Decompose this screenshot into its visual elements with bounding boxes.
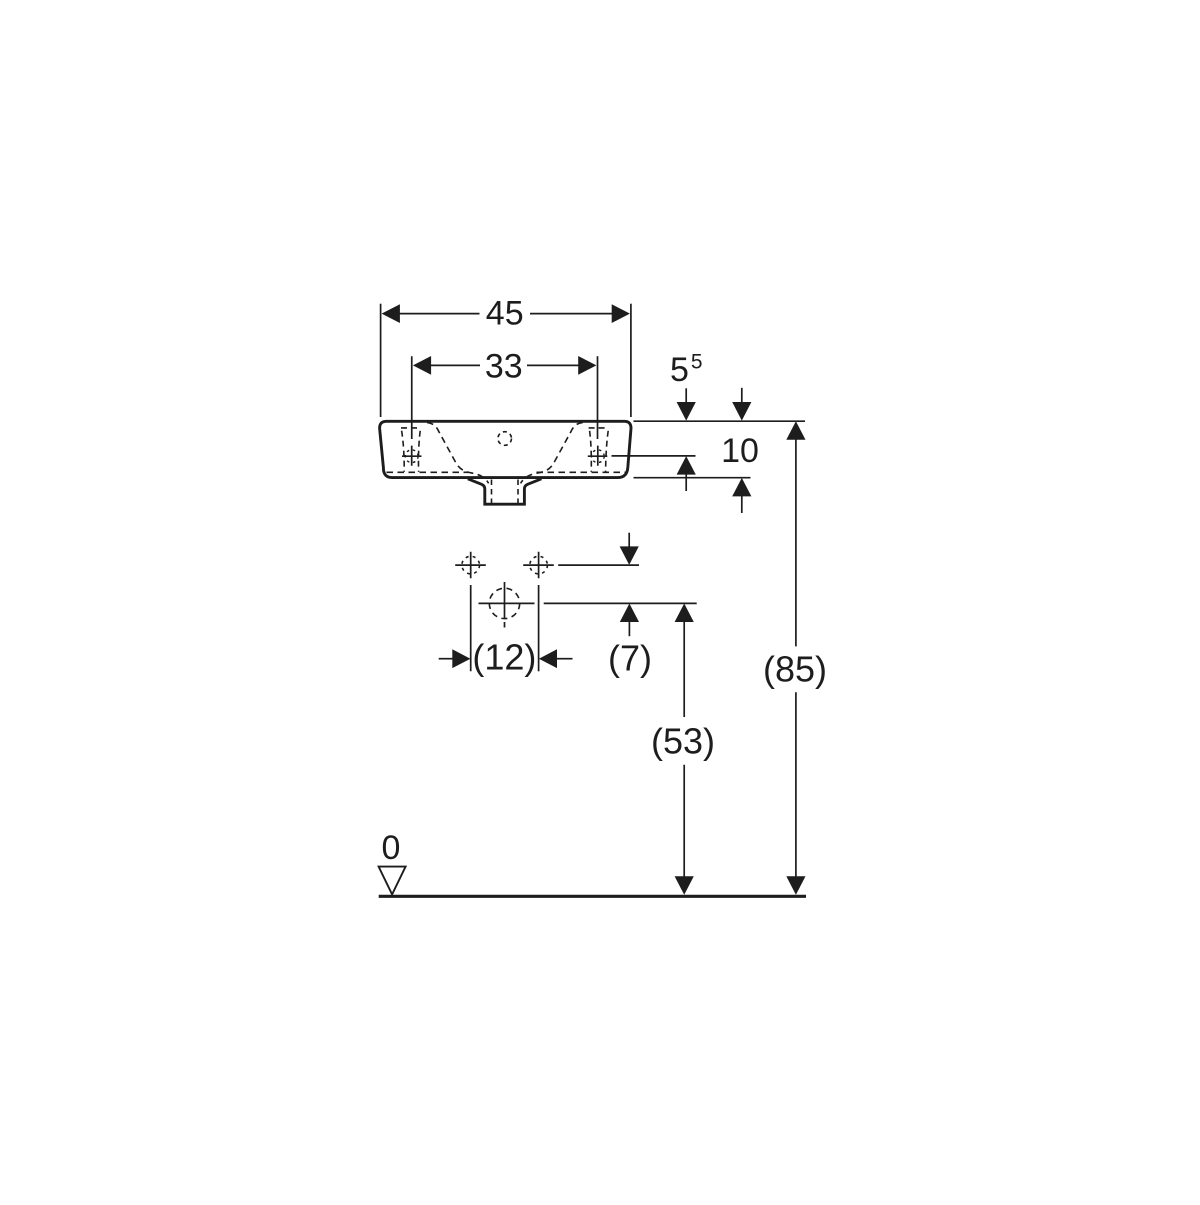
wire 5.5-dim down arrow tail	[685, 388, 687, 403]
wire 10-dim up arrow tail	[741, 496, 743, 513]
svg-text:0: 0	[382, 829, 401, 867]
node 5.5-dim down arrow	[677, 402, 696, 421]
node 45 arrow right	[612, 304, 630, 323]
node 7-dim up arrow	[620, 604, 639, 623]
svg-text:(53): (53)	[651, 721, 715, 762]
node left fixing hole dashed circle	[405, 450, 418, 463]
node 45 arrow left	[382, 304, 400, 323]
wire 12-dim right-pointing arrow tail	[439, 658, 453, 660]
node 10-dim down arrow	[732, 402, 751, 421]
wire anchor level leader line	[558, 564, 639, 566]
node 12-dim right-pointing arrow	[452, 649, 470, 668]
wire 45-dim line left segment	[398, 313, 480, 315]
svg-text:(85): (85)	[763, 649, 827, 690]
wire bowl dashed curve right	[521, 422, 583, 483]
wire 85-dim vertical line lower	[795, 692, 797, 877]
wire bowl dashed curve left	[427, 422, 489, 483]
node 7-dim down arrow	[620, 546, 639, 565]
node overflow hole dashed circle	[498, 432, 512, 446]
wire drain pipe inner dashed right	[517, 480, 519, 504]
floor line	[379, 895, 806, 898]
node 85-dim down arrow	[786, 876, 805, 895]
node 10-dim up arrow	[732, 478, 751, 497]
wire drain pipe inner dashed left	[491, 480, 493, 504]
svg-text:10: 10	[721, 432, 759, 470]
svg-text:(12): (12)	[472, 637, 536, 678]
wire leader from right fixing hole	[612, 455, 696, 457]
wire 33-dim line left segment	[431, 364, 480, 366]
wire 5.5-dim up arrow tail	[685, 474, 687, 491]
node left wall anchor crosshair	[455, 552, 486, 579]
node drain pipe dashed circle	[489, 588, 519, 618]
drain funnel	[468, 479, 542, 504]
wire 53-dim vertical line upper	[683, 622, 685, 717]
node right wall anchor dashed circle	[530, 556, 548, 574]
wire 7-dim up arrow tail	[628, 622, 630, 637]
node left wall anchor dashed circle	[462, 556, 480, 574]
wire 33-dim line right segment	[527, 364, 579, 366]
wire 12-dim left-pointing arrow tail	[557, 658, 573, 660]
node right fixing hole dashed circle	[591, 450, 604, 463]
wire 33-dim right extension line	[597, 356, 599, 439]
svg-text:5: 5	[670, 351, 689, 389]
node floor level triangle symbol	[379, 867, 406, 895]
svg-text:(7): (7)	[608, 638, 652, 679]
node 5.5-dim up arrow	[677, 456, 696, 475]
left fixing boss dashed outline	[401, 428, 421, 472]
node left fixing hole crosshair	[402, 446, 422, 466]
wire 12-dim left extension line	[470, 585, 472, 671]
wire bottom dashed line left	[387, 471, 469, 473]
wire 45-dim left extension line	[380, 304, 382, 417]
wire 12-dim right extension line	[538, 585, 540, 671]
svg-text:33: 33	[485, 347, 523, 385]
node 12-dim left-pointing arrow	[539, 649, 557, 668]
wire 53-dim vertical line lower	[683, 765, 685, 877]
svg-text:45: 45	[486, 295, 524, 333]
wire basin bottom level reference line	[634, 477, 751, 479]
node 53-dim down arrow	[675, 876, 694, 895]
wire 33-dim left extension line	[411, 356, 413, 439]
node right wall anchor crosshair	[523, 552, 554, 579]
node 33 arrow right	[578, 356, 596, 375]
wire drain level leader line	[544, 602, 697, 604]
wire 7-dim down arrow tail	[628, 533, 630, 547]
node 53-dim up arrow	[675, 604, 694, 623]
wire 85-dim vertical line upper	[795, 439, 797, 646]
wire rim level reference line	[634, 420, 806, 422]
wire bottom dashed line right	[537, 471, 627, 473]
node 85-dim up arrow	[786, 421, 805, 440]
right fixing boss dashed outline	[589, 428, 609, 472]
wire 45-dim right extension line	[630, 304, 632, 417]
node right fixing hole crosshair	[588, 446, 608, 466]
node drain pipe crosshair	[479, 582, 535, 628]
node 33 arrow left	[413, 356, 431, 375]
svg-text:5: 5	[691, 351, 703, 374]
wire 45-dim line right segment	[530, 313, 612, 315]
basin outline	[380, 421, 631, 477]
wire 10-dim down arrow tail	[741, 388, 743, 403]
